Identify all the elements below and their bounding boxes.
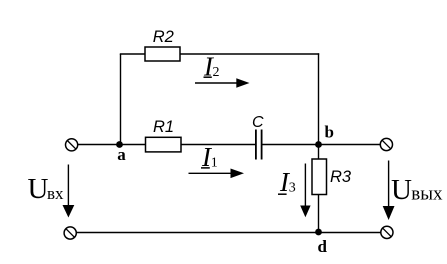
wire node b down to R3 bbox=[318, 145, 320, 160]
voltage arrow Uvyx (right, downward) bbox=[383, 161, 395, 221]
current label I3 bbox=[278, 167, 296, 197]
terminal output top-right bbox=[380, 138, 392, 150]
svg-text:d: d bbox=[318, 237, 328, 256]
wire top branch horizontal left segment bbox=[120, 53, 145, 55]
wire middle segment R1 to capacitor bbox=[181, 144, 256, 146]
svg-text:R1: R1 bbox=[153, 118, 174, 136]
wire top branch vertical left (node a up to R2 row) bbox=[120, 54, 122, 145]
svg-text:R2: R2 bbox=[153, 28, 174, 46]
terminal input top-left bbox=[66, 139, 78, 151]
svg-text:3: 3 bbox=[289, 180, 296, 195]
resistor R3 bbox=[312, 159, 327, 195]
capacitor C plates bbox=[256, 130, 262, 160]
wire middle left segment (input to node a to R1) bbox=[78, 144, 146, 146]
svg-text:1: 1 bbox=[211, 156, 218, 171]
svg-text:R3: R3 bbox=[330, 168, 352, 186]
wire middle segment capacitor to output (through node b) bbox=[262, 144, 381, 146]
node d junction dot bbox=[315, 229, 322, 236]
wire top branch vertical right (down to node b) bbox=[318, 53, 320, 144]
svg-text:b: b bbox=[325, 123, 334, 142]
svg-text:U: U bbox=[391, 174, 412, 206]
label Uvx bbox=[28, 173, 65, 205]
resistor R2 bbox=[145, 47, 180, 61]
svg-text:C: C bbox=[252, 114, 264, 131]
wire top branch horizontal right segment bbox=[180, 53, 319, 55]
terminal input bottom-left bbox=[64, 227, 76, 239]
voltage arrow Uvx (left, downward) bbox=[63, 165, 75, 218]
svg-text:вых: вых bbox=[411, 184, 443, 205]
node b junction dot bbox=[315, 141, 322, 148]
label Uvyx bbox=[391, 174, 443, 206]
wire bottom (input bottom to output bottom through node d) bbox=[76, 232, 380, 234]
current arrow I1 bbox=[189, 169, 245, 179]
current arrow I3 (downward) bbox=[300, 164, 310, 218]
node a junction dot bbox=[116, 141, 123, 148]
svg-text:2: 2 bbox=[213, 65, 220, 80]
svg-text:a: a bbox=[117, 145, 126, 164]
terminal output bottom-right bbox=[381, 226, 393, 238]
current arrow I2 bbox=[195, 78, 250, 88]
svg-text:U: U bbox=[28, 173, 49, 205]
wire R3 down to node d bbox=[318, 195, 320, 233]
resistor R1 bbox=[146, 137, 182, 152]
svg-text:вх: вх bbox=[47, 184, 64, 203]
current label I2 bbox=[203, 51, 220, 81]
current label I1 bbox=[201, 142, 218, 172]
